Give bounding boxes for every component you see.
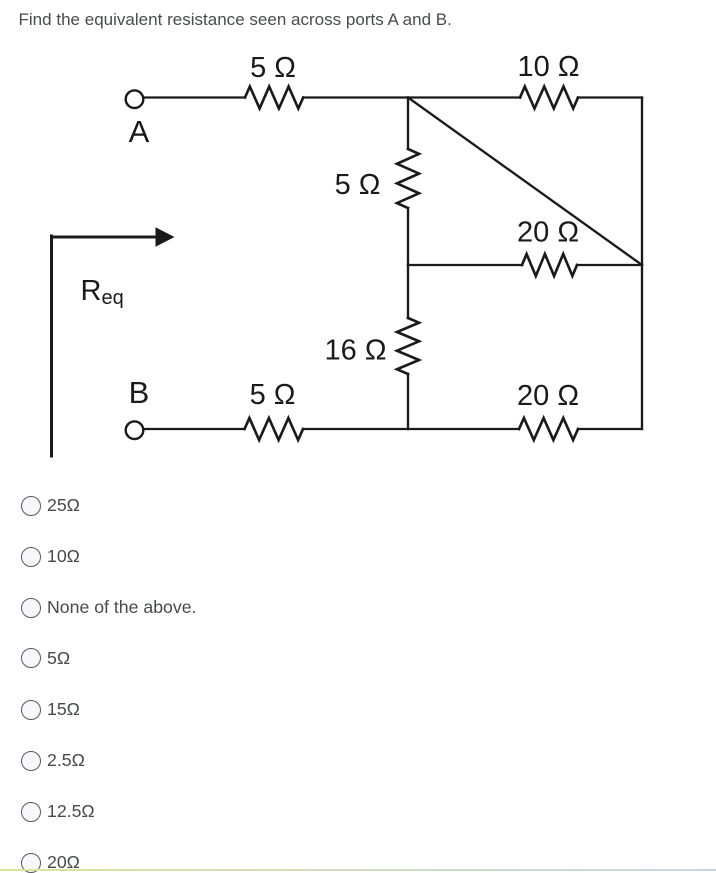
resistor 10ohm [520, 87, 578, 109]
resistor 20ohm middle [522, 254, 577, 276]
port B terminal [126, 421, 144, 439]
wire R-bot5 to node [303, 428, 519, 430]
wire node M to R20mid [408, 264, 522, 266]
resistor 5ohm vertical [397, 149, 419, 208]
wire R16 to bottom [407, 374, 409, 429]
svg-text:5 Ω: 5 Ω [250, 379, 296, 411]
svg-text:20 Ω: 20 Ω [517, 380, 579, 412]
wire R20mid to right [577, 264, 642, 266]
svg-text:B: B [129, 375, 150, 410]
wire right vertical [641, 98, 643, 430]
svg-text:16 Ω: 16 Ω [325, 335, 387, 367]
wire Req arrowhead [156, 227, 175, 246]
wire A to R-top5 [144, 96, 246, 98]
svg-text:5 Ω: 5 Ω [250, 52, 296, 84]
wire R5v to node M [407, 208, 409, 265]
resistor 16ohm [397, 318, 419, 374]
wire B to R-bot5 [144, 428, 245, 430]
wire Req arrow shaft [52, 236, 159, 239]
port A terminal [126, 90, 144, 108]
resistor 5ohm bottom [245, 418, 304, 440]
wire diagonal [408, 98, 642, 266]
resistor 20ohm bottom [519, 418, 578, 440]
svg-text:5 Ω: 5 Ω [335, 169, 381, 201]
svg-text:20 Ω: 20 Ω [517, 217, 579, 249]
svg-text:10 Ω: 10 Ω [518, 51, 580, 83]
wire node M down [407, 265, 409, 318]
wire R10 to top-right corner [578, 96, 642, 98]
resistor 5ohm top [245, 87, 303, 109]
wire Req bracket vertical [50, 236, 53, 456]
svg-text:A: A [129, 114, 150, 149]
wire R20bot to bottom-right corner [578, 428, 642, 430]
wire R-top5 to node T [303, 96, 520, 98]
svg-text:Req: Req [81, 275, 124, 309]
wire node T down [407, 98, 409, 150]
